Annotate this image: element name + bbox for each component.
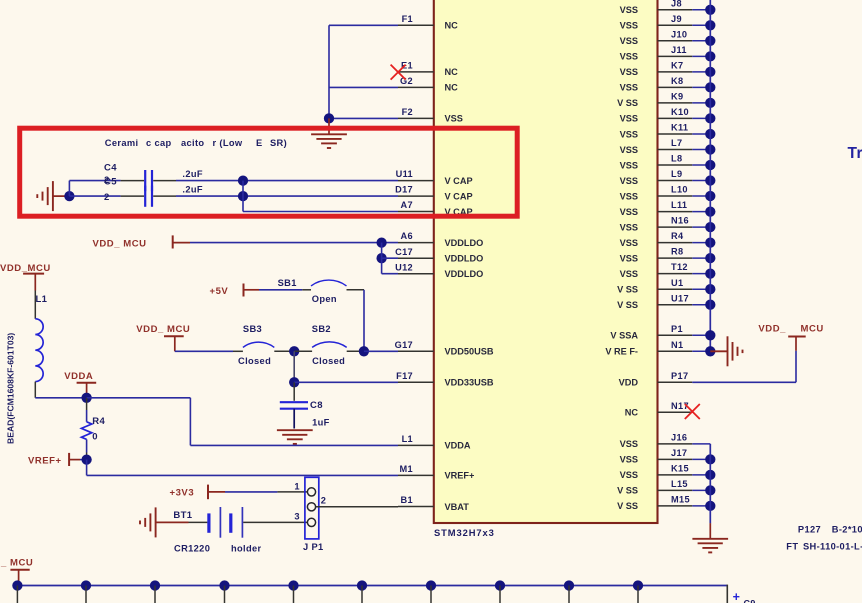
wire to A7 [242,181,244,212]
junction L15 [705,485,715,495]
wire node to SB2 [294,350,312,352]
junction K9 [705,98,715,108]
svg-text:1: 1 [294,481,300,491]
svg-text:VDD33USB: VDD33USB [445,378,494,388]
pin J10 VSS stub [658,40,693,42]
svg-text:P1: P1 [671,324,683,334]
wire SB node down [293,351,295,382]
svg-text:E1: E1 [401,61,413,71]
power _MCU bar bottom [10,569,29,571]
resistor R4 [86,398,88,410]
svg-text:C9: C9 [744,599,756,603]
wire A6-C17-U12 [381,243,383,274]
svg-text:U12: U12 [395,262,413,272]
pin L1 stub [398,444,434,446]
svg-text:VSS: VSS [620,269,638,279]
pin L7 VSS stub [658,149,693,151]
junction U11 [238,175,248,185]
pin J8 VSS stub [658,9,693,11]
pin M15 stub [658,505,693,507]
wire VDD_MCU to A6 [190,242,398,244]
wire VSS bus lower right [709,444,711,524]
wire SB2 to G17 [347,350,364,352]
pin B1 stub [398,506,434,508]
svg-text:2: 2 [104,175,110,186]
junction bus 9 [564,580,574,590]
svg-text:C8: C8 [310,400,323,411]
wire +3V3 to JP1 pin1 [225,491,277,493]
svg-text:NC: NC [625,408,639,418]
junction bus 2 [81,580,91,590]
pin L9 VSS stub [658,180,693,182]
wire G2 [329,86,398,88]
junction K8 [705,82,715,92]
junction K11 [705,129,715,139]
svg-text:SB2: SB2 [312,324,331,334]
svg-text:VSS: VSS [445,114,463,124]
power VDD_MCU (SB3) bar [164,335,184,337]
svg-text:VSS: VSS [620,83,638,93]
junction J11 [705,51,715,61]
junction J10 [705,36,715,46]
svg-text:.2uF: .2uF [182,184,203,194]
svg-text:1uF: 1uF [312,418,330,428]
svg-text:VDDLDO: VDDLDO [445,254,484,264]
svg-text:VSS: VSS [620,207,638,217]
svg-text:VBAT: VBAT [445,502,470,512]
junction F2 [324,113,334,123]
svg-text:J P1: J P1 [303,542,324,552]
junction VREF+ [81,454,91,464]
pin U17 VSS stub [658,304,693,306]
svg-text:B1: B1 [401,495,413,505]
wire bus drop 10 [637,586,639,603]
svg-text:J17: J17 [671,448,687,458]
wire VREF+ to node [80,459,87,461]
junction L11 [705,206,715,216]
junction J8 [705,5,715,15]
pin L11 VSS stub [658,211,693,213]
svg-text:G17: G17 [395,340,413,350]
junction U17 [705,300,715,310]
pin L15 stub [658,489,693,491]
svg-text:L10: L10 [671,185,688,195]
JP1 pin3 circle [307,518,315,526]
svg-text:VDD50USB: VDD50USB [445,347,494,357]
junction bus 4 [219,580,229,590]
svg-text:D17: D17 [395,185,413,195]
svg-text:VREF+: VREF+ [28,455,62,466]
junction bus 5 [288,580,298,590]
svg-text:V SS: V SS [617,501,638,511]
wire vertical F1-F2 [328,25,330,118]
highlight rectangle (ceramic capacitor note) [20,128,518,216]
junction R8 [705,253,715,263]
svg-text:CR1220: CR1220 [174,543,210,553]
junction A6 [376,237,386,247]
pin J17 stub [658,458,693,460]
svg-text:NC: NC [445,67,459,77]
pin N16 VSS stub [658,226,693,228]
pin P17 VDD stub [658,381,693,383]
svg-text:r (Low: r (Low [213,138,243,148]
svg-text:BT1: BT1 [173,510,192,521]
svg-text:VDDLDO: VDDLDO [445,238,484,248]
pin J11 VSS stub [658,55,693,57]
svg-text:acito: acito [181,138,204,148]
pin U11 stub [398,180,434,182]
wire bus drop 1 [16,586,18,603]
svg-text:M15: M15 [671,495,690,505]
svg-text:F2: F2 [402,107,413,117]
svg-text:T12: T12 [671,262,688,272]
svg-text:VDDA: VDDA [445,441,471,451]
pin K8 VSS stub [658,86,693,88]
svg-text:VSS: VSS [620,238,638,248]
pin P1 stub [658,334,693,336]
pin R4 VSS stub [658,242,693,244]
svg-text:VSS: VSS [620,470,638,480]
junction L9 [705,175,715,185]
svg-text:E: E [256,138,263,148]
junction J9 [705,20,715,30]
svg-text:.2uF: .2uF [182,169,203,179]
inductor L1 [34,291,36,319]
svg-text:V SS: V SS [617,98,638,108]
svg-text:+5V: +5V [210,286,229,297]
svg-text:VDDLDO: VDDLDO [445,269,484,279]
op-amp U1 STM32H7x3 IC body [434,0,658,523]
svg-text:VSS: VSS [620,52,638,62]
svg-text:P127: P127 [798,525,821,535]
wire L1 to VDDA [35,397,86,399]
svg-text:K11: K11 [671,123,688,133]
power VDD_MCU (A6) bar [172,235,174,248]
svg-text:2: 2 [104,192,110,203]
svg-text:VSS: VSS [620,160,638,170]
junction bus 8 [495,580,505,590]
pin T12 VSS stub [658,273,693,275]
svg-text:VSS: VSS [620,67,638,77]
ground below F2 [328,118,330,134]
power VDD_MCU right bar [788,336,806,338]
wire bus drop 6 [361,586,363,603]
svg-text:VSS: VSS [620,5,638,15]
svg-text:VDD_ MCU: VDD_ MCU [93,239,147,250]
svg-text:P17: P17 [671,371,688,381]
wire bus drop 3 [154,586,156,603]
svg-text:L1: L1 [36,294,48,305]
wire G17 [364,350,398,352]
pin N17 NC stub [658,411,693,413]
svg-text:MCU: MCU [801,324,824,335]
solder bridge SB3 arc [243,342,274,347]
pin C17 stub [398,257,434,259]
junction P1 [705,330,715,340]
junction R4 [705,237,715,247]
svg-text:L1: L1 [402,434,413,444]
svg-text:NC: NC [445,83,459,93]
junction VCAP ground [64,191,74,201]
svg-text:Cerami: Cerami [105,138,139,148]
junction bus 3 [150,580,160,590]
wire VCAP row1 left [68,181,70,197]
svg-text:VDDA: VDDA [64,371,93,382]
svg-text:VDD: VDD [619,378,639,388]
svg-text:U1: U1 [671,278,683,288]
svg-text:V SSA: V SSA [610,331,638,341]
svg-text:J10: J10 [671,29,687,39]
svg-text:N1: N1 [671,340,683,350]
capacitor C8 [293,382,295,401]
svg-text:0: 0 [92,432,98,443]
svg-text:K9: K9 [671,92,683,102]
pin K7 VSS stub [658,71,693,73]
svg-text:VSS: VSS [620,129,638,139]
wire C4 to U11 [153,180,176,182]
junction T12 [705,268,715,278]
pin F1 stub [398,24,434,26]
svg-text:R4: R4 [671,231,684,241]
pin R8 VSS stub [658,257,693,259]
svg-text:holder: holder [231,543,262,553]
svg-text:+3V3: +3V3 [170,487,195,498]
svg-text:SB3: SB3 [243,324,262,334]
svg-text:Open: Open [312,294,337,304]
battery BT1 [189,521,208,523]
svg-text:K15: K15 [671,464,689,474]
svg-text:VSS: VSS [620,176,638,186]
svg-text:L8: L8 [671,154,682,164]
svg-text:VDD_ MCU: VDD_ MCU [136,324,190,335]
ground below C8 [277,429,313,431]
svg-text:SH-110-01-L-: SH-110-01-L- [803,541,862,551]
ground below M15 [709,523,711,539]
pin K9 VSS stub [658,102,693,104]
svg-text:VSS: VSS [620,21,638,31]
junction D17 [238,191,248,201]
svg-text:FT: FT [786,541,798,551]
svg-text:VSS: VSS [620,191,638,201]
junction SB node [289,346,299,356]
svg-text:VSS: VSS [620,222,638,232]
JP1 pin1 circle [307,488,315,496]
junction bus 7 [426,580,436,590]
svg-text:VSS: VSS [620,439,638,449]
svg-text:VSS: VSS [620,36,638,46]
svg-text:STM32H7x3: STM32H7x3 [434,527,495,538]
pin G17 stub [398,350,434,352]
junction U1 [705,284,715,294]
pin D17 stub [398,195,434,197]
svg-text:c cap: c cap [146,138,172,148]
junction M15 [705,501,715,511]
junction C17 [376,253,386,263]
junction J17 [705,454,715,464]
capacitor C5 [144,186,146,207]
svg-text:NC: NC [445,21,459,31]
svg-text:L7: L7 [671,138,682,148]
wire F2 [329,117,398,119]
wire VSS bus right [709,0,711,351]
svg-text:J8: J8 [671,0,682,8]
svg-text:C17: C17 [395,247,413,257]
wire bus drop 5 [293,586,295,603]
wire bus drop 2 [85,586,87,603]
junction F17 [289,377,299,387]
svg-text:BEAD(FCM1608KF-601T03): BEAD(FCM1608KF-601T03) [6,333,16,444]
junction bus 6 [357,580,367,590]
pin J16 stub [658,443,693,445]
svg-text:K10: K10 [671,107,689,117]
junction K15 [705,470,715,480]
power +5V bar [243,284,245,297]
junction N16 [705,222,715,232]
pin K11 VSS stub [658,133,693,135]
junction bus 1 [12,580,22,590]
junction G17 [359,346,369,356]
svg-text:F17: F17 [396,371,413,381]
pin L10 VSS stub [658,195,693,197]
pin J9 VSS stub [658,24,693,26]
svg-text:L11: L11 [671,200,687,210]
wire JP1 pin2 to B1 [316,506,398,508]
svg-text:C4: C4 [104,163,117,174]
power VREF+ bar [68,453,70,466]
pin K15 stub [658,474,693,476]
svg-text:VSS: VSS [620,145,638,155]
svg-text:SR): SR) [270,138,287,148]
svg-text:K8: K8 [671,76,683,86]
JP1 pin2 circle [307,503,315,511]
no-connect X at E1 [391,65,406,80]
svg-text:_ MCU: _ MCU [0,557,33,568]
pin U12 stub [398,273,434,275]
junction K7 [705,67,715,77]
junction L8 [705,160,715,170]
pin K10 VSS stub [658,117,693,119]
junction L10 [705,191,715,201]
junction bus 10 [633,580,643,590]
ground left of BT1 [155,507,157,537]
wire SB3 to node [274,350,294,352]
wire +5V to SB1 [259,289,302,291]
power VDDA bar [77,382,97,384]
svg-text:+: + [733,590,741,603]
svg-text:N16: N16 [671,216,689,226]
pin G2 stub [398,86,434,88]
svg-text:V SS: V SS [617,285,638,295]
wire F17 [294,381,398,383]
wire VCAP row2 left [69,195,120,197]
svg-text:V CAP: V CAP [445,176,473,186]
svg-text:SB1: SB1 [278,278,297,288]
junction N1 [705,346,715,356]
power +3V3 bar [207,485,209,500]
svg-text:Closed: Closed [238,356,271,366]
svg-text:L9: L9 [671,169,682,179]
power VDD_MCU top-left bar [23,273,44,275]
svg-text:B-2*10: B-2*10 [832,525,862,535]
svg-text:3: 3 [294,512,300,522]
wire bus drop 8 [499,586,501,603]
no-connect X at N17 [685,404,700,419]
pin L8 VSS stub [658,164,693,166]
pin F2 stub [398,117,434,119]
svg-text:VSS: VSS [620,114,638,124]
wire bus drop 9 [568,586,570,603]
pin N1 stub [658,350,693,352]
pin A6 stub [398,242,434,244]
svg-text:J9: J9 [671,14,682,24]
capacitor C4 [144,170,146,191]
svg-text:Tr: Tr [848,145,862,162]
wire bus drop 7 [430,586,432,603]
wire VDDA to L1 pin [87,397,191,399]
svg-text:J16: J16 [671,433,687,443]
svg-text:A6: A6 [401,231,413,241]
solder bridge SB2 arc [312,342,347,347]
svg-text:V RE F-: V RE F- [605,347,638,357]
svg-text:L15: L15 [671,479,688,489]
wire VREF+ to M1 [86,460,88,476]
svg-text:R8: R8 [671,247,683,257]
wire C5 to D17 [153,195,176,197]
svg-text:F1: F1 [402,14,413,24]
svg-text:VREF+: VREF+ [445,471,475,481]
solder bridge SB1 (open) arc [311,280,347,286]
connector JP1 box [305,477,319,539]
ground left of C4/C5 [52,181,54,211]
svg-text:A7: A7 [401,200,413,210]
pin A7 stub [398,211,434,213]
svg-text:M1: M1 [400,464,413,474]
svg-text:J11: J11 [671,45,687,55]
wire bus drop 4 [224,586,226,603]
svg-text:VSS: VSS [620,253,638,263]
svg-text:VDD_: VDD_ [758,324,786,335]
svg-text:VDD_MCU: VDD_MCU [0,263,51,274]
pin E1 stub [398,71,434,73]
svg-text:K7: K7 [671,61,683,71]
svg-text:V SS: V SS [617,486,638,496]
wire bottom bus [17,585,727,587]
wire VDD_MCU to SB3 [175,350,233,352]
svg-text:2: 2 [321,496,327,506]
junction K10 [705,113,715,123]
ground at N1 [710,350,727,352]
pin M1 stub [398,474,434,476]
svg-text:Closed: Closed [312,356,345,366]
pin U1 VSS stub [658,288,693,290]
svg-text:U17: U17 [671,293,689,303]
svg-text:VSS: VSS [620,455,638,465]
pin F17 stub [398,381,434,383]
junction L7 [705,144,715,154]
wire SB1 to G17 node [347,289,365,291]
svg-text:U11: U11 [396,169,413,179]
svg-text:R4: R4 [92,416,105,427]
svg-text:G2: G2 [400,76,413,86]
svg-text:V CAP: V CAP [445,191,473,201]
svg-text:V SS: V SS [617,300,638,310]
wire F1 [329,24,398,26]
junction VDDA [81,393,91,403]
